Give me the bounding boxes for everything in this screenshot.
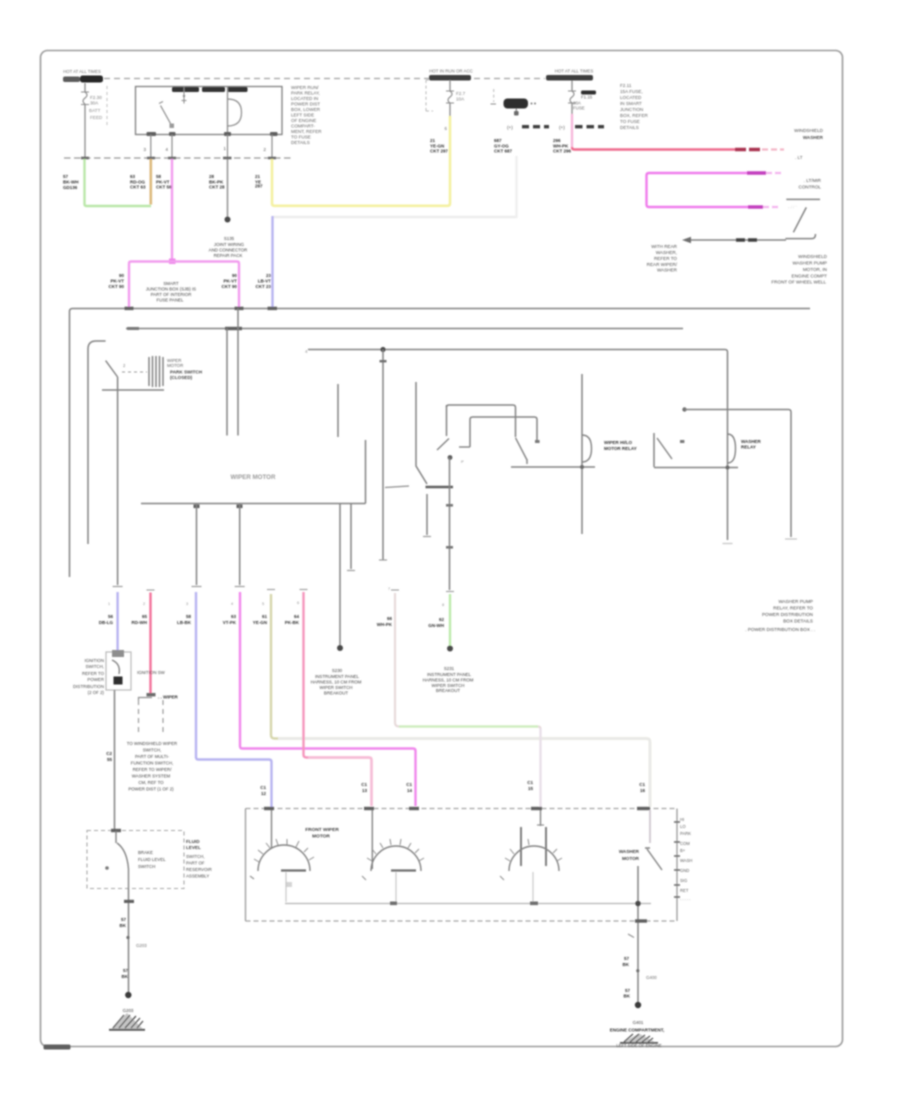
- text centered module label below splice: [146, 281, 196, 303]
- svg-text:G203: G203: [123, 1008, 134, 1013]
- svg-text:CKT 297: CKT 297: [430, 149, 449, 154]
- svg-text:CKT 90: CKT 90: [221, 284, 237, 289]
- svg-text:G203: G203: [136, 943, 147, 948]
- wire stub mid: [337, 384, 339, 437]
- entry tick: [111, 829, 121, 832]
- relay coil K1 inside box U1: [227, 87, 229, 135]
- svg-text:7: 7: [388, 587, 390, 591]
- svg-text:21: 21: [430, 138, 436, 143]
- svg-text:WIPER SWITCH: WIPER SWITCH: [320, 685, 353, 690]
- svg-text:WASHER: WASHER: [803, 135, 824, 140]
- internal bus: [285, 903, 651, 905]
- svg-text:BK-WH: BK-WH: [63, 180, 79, 185]
- svg-text:F1.15: F1.15: [581, 95, 593, 100]
- svg-text:CONTROL: CONTROL: [799, 185, 822, 190]
- svg-text:23: 23: [266, 273, 272, 278]
- svg-text:INSTRUMENT PANEL: INSTRUMENT PANEL: [315, 674, 360, 679]
- svg-text:S135: S135: [224, 236, 235, 241]
- wire green GRN: [85, 159, 152, 206]
- svg-text:PK-BK: PK-BK: [285, 620, 300, 625]
- svg-text:57: 57: [63, 174, 69, 179]
- svg-text:WASHER PUMP: WASHER PUMP: [778, 599, 813, 604]
- svg-text:LEFT SIDE OF ENGINE: LEFT SIDE OF ENGINE: [616, 1043, 662, 1048]
- wire yellow YEL long: [272, 116, 450, 206]
- switch inside box right: [649, 810, 651, 843]
- svg-text:PARK SWITCH: PARK SWITCH: [170, 370, 203, 375]
- svg-text:ASSEMBLY: ASSEMBLY: [186, 874, 209, 879]
- wire pink down from fuse F3: [571, 114, 573, 147]
- text block right of comp4: [620, 83, 649, 130]
- box U1 bold title: [172, 87, 199, 92]
- svg-text:15: 15: [528, 786, 534, 791]
- ground splice dot right: [635, 1002, 641, 1008]
- pin 2 stub inside box U1: [183, 87, 185, 99]
- connector ticks above colored drops: [147, 590, 455, 592]
- wiper motor internal: vertical with elbow: [416, 382, 427, 484]
- svg-text:SWITCH: SWITCH: [138, 864, 155, 869]
- bus2 dark tick left: [127, 327, 139, 330]
- svg-text:WASHER,: WASHER,: [656, 250, 677, 255]
- fuse F3 labels bold: [581, 91, 596, 95]
- bus C1 dark pin ticks: [81, 157, 89, 160]
- svg-text:SIG: SIG: [680, 878, 687, 883]
- ground chain right labels: [623, 956, 630, 967]
- svg-text:REAR WIPER/: REAR WIPER/: [647, 262, 678, 267]
- svg-text:COM: COM: [680, 841, 690, 846]
- svg-text:HARNESS, 10 CM FROM: HARNESS, 10 CM FROM: [423, 678, 474, 683]
- svg-text:(+): (+): [507, 125, 513, 130]
- svg-text:12: 12: [261, 791, 267, 796]
- wire magenta U top: [649, 172, 747, 174]
- stub into box: [115, 831, 117, 843]
- bus1 dark ticks at wire entries: [125, 307, 134, 310]
- svg-text:WINDSHIELD: WINDSHIELD: [798, 254, 828, 259]
- svg-text:PK-VT: PK-VT: [111, 279, 125, 284]
- svg-text:PARK: PARK: [680, 831, 691, 836]
- svg-text:56: 56: [108, 614, 114, 619]
- svg-text:PART OF MULTI-: PART OF MULTI-: [135, 754, 170, 759]
- wire magenta branch right: [172, 262, 239, 308]
- svg-text:C2: C2: [106, 751, 112, 756]
- svg-text:PART OF INTERIOR: PART OF INTERIOR: [151, 292, 192, 297]
- wire dashed fuse box boundary top: [104, 78, 545, 80]
- wire arrow bold label: [736, 238, 759, 241]
- inline connector tick on wire: [380, 360, 387, 362]
- svg-text:BK: BK: [120, 923, 127, 928]
- svg-text:WINDSHIELD: WINDSHIELD: [794, 128, 824, 133]
- wire magenta U left side: [647, 173, 650, 207]
- svg-text:LOCATED: LOCATED: [620, 95, 642, 100]
- stub below C3: [515, 109, 517, 116]
- svg-text:FUSE PANEL: FUSE PANEL: [156, 298, 184, 303]
- svg-text:FRONT OF WHEEL WELL: FRONT OF WHEEL WELL: [771, 280, 826, 285]
- pin label YEL circuit: [255, 174, 263, 189]
- power feed bar comp4: [546, 75, 593, 81]
- connector bus C1 dashed: [64, 157, 292, 159]
- svg-text:REFER TO: REFER TO: [654, 256, 677, 261]
- svg-text:POWER: POWER: [87, 677, 104, 682]
- right side text column outside box: [680, 817, 692, 901]
- svg-text:BRAKE: BRAKE: [138, 850, 153, 855]
- end tick: [379, 559, 387, 561]
- short bridge wire: [385, 486, 409, 488]
- svg-text:C1: C1: [406, 782, 412, 787]
- wire under connector: [102, 389, 164, 391]
- wire magenta U top tail: [766, 172, 784, 174]
- svg-text:LB-BK: LB-BK: [177, 620, 192, 625]
- wire end tick relay leg: [723, 543, 733, 545]
- svg-text:C1: C1: [639, 782, 645, 787]
- wire from feed to fuse F1: [84, 83, 86, 92]
- svg-text:MOTOR RELAY: MOTOR RELAY: [604, 446, 637, 451]
- svg-text:8: 8: [442, 603, 444, 607]
- end tick rail C: [113, 586, 123, 588]
- svg-text:S230: S230: [332, 668, 343, 673]
- pink lower horizontal paler: [308, 758, 372, 807]
- pin label BLK circuit: [209, 174, 225, 190]
- svg-text:FEED: FEED: [90, 115, 103, 120]
- svg-text:TO WINDSHIELD WIPER: TO WINDSHIELD WIPER: [127, 741, 177, 746]
- svg-text:1: 1: [223, 146, 226, 152]
- dark entry ticks on box top: [264, 807, 274, 810]
- svg-text:297: 297: [255, 184, 263, 189]
- splice dot green: [447, 646, 453, 652]
- svg-text:P: P: [461, 459, 464, 464]
- svg-text:IN SMART: IN SMART: [620, 101, 642, 106]
- pin label C3 circuit: [494, 138, 513, 154]
- svg-text:BK: BK: [624, 994, 631, 999]
- svg-text:GD136: GD136: [63, 185, 78, 190]
- svg-text:RELAY, REFER TO: RELAY, REFER TO: [773, 606, 813, 611]
- svg-text:. . .: . . .: [788, 204, 794, 209]
- pin labels above bottom box: [260, 780, 645, 796]
- svg-text:TO FUSE: TO FUSE: [620, 119, 640, 124]
- text block bottom-right: [771, 254, 827, 285]
- svg-text:BOX, LOWER: BOX, LOWER: [291, 107, 321, 112]
- svg-text:WASHER: WASHER: [657, 268, 678, 273]
- fuse F1 30A: [81, 92, 89, 105]
- svg-text:687: 687: [494, 138, 502, 143]
- relay switch symbol: [653, 433, 655, 467]
- splice dot left of pair: [337, 645, 343, 651]
- svg-text:21: 21: [255, 174, 261, 179]
- svg-text:IGNITION SW: IGNITION SW: [137, 670, 166, 675]
- wire violet drop long: [240, 592, 416, 806]
- svg-text:IGNITION: IGNITION: [84, 658, 104, 663]
- contact to bottom: [128, 869, 130, 889]
- svg-text:S231: S231: [444, 666, 455, 671]
- svg-text:GN-WH: GN-WH: [428, 623, 444, 628]
- tiny pin numbers above: [108, 587, 444, 607]
- svg-text:2: 2: [263, 147, 266, 153]
- svg-text:4: 4: [165, 147, 168, 153]
- svg-text:57: 57: [624, 956, 630, 961]
- pin label ORN circuit: [130, 174, 146, 190]
- text right of dashed box: [186, 839, 201, 850]
- svg-text:FUNCTION SWITCH,: FUNCTION SWITCH,: [131, 761, 173, 766]
- pin label comp4 circuit: [553, 138, 572, 154]
- wire pair stub A from bus2: [226, 329, 228, 436]
- svg-text:C1: C1: [527, 780, 533, 785]
- pin marks below connector line: [194, 505, 200, 509]
- svg-text:CKT 28: CKT 28: [209, 185, 225, 190]
- mech link dashed: [122, 371, 147, 373]
- cam contact bar right: [459, 446, 470, 448]
- fuse F2: [446, 91, 454, 103]
- svg-text:INSTRUMENT PANEL: INSTRUMENT PANEL: [427, 672, 472, 677]
- pin label magenta right: [221, 273, 237, 289]
- wire below elbow: [426, 494, 428, 535]
- wire gray from ignition down: [114, 690, 116, 830]
- svg-text:CM, REF TO: CM, REF TO: [138, 780, 164, 785]
- relay text right: [741, 439, 762, 450]
- svg-text:REPAIR PACK: REPAIR PACK: [214, 253, 243, 258]
- svg-text:WASH: WASH: [680, 858, 692, 863]
- svg-text:58: 58: [156, 174, 162, 179]
- svg-text:PARK RELAY,: PARK RELAY,: [291, 91, 320, 96]
- svg-text:DETAILS: DETAILS: [291, 140, 310, 145]
- Z symbol continuation: [785, 199, 820, 238]
- svg-text:16: 16: [640, 788, 646, 793]
- pin labels row y612-630: [99, 614, 445, 628]
- svg-text:GND: GND: [680, 868, 689, 873]
- wire bus3 with corner down to relay: [308, 350, 728, 541]
- svg-text:COMPART-: COMPART-: [291, 124, 315, 129]
- svg-text:CKT 90: CKT 90: [108, 284, 124, 289]
- staircase wire A: [447, 405, 516, 437]
- wire from switch arm down rail C: [117, 377, 119, 585]
- ground splice dot left: [125, 992, 131, 998]
- box U1 wiper relay module: [136, 87, 283, 135]
- svg-text:RD-WH: RD-WH: [132, 620, 148, 625]
- svg-text:FUSE: FUSE: [573, 106, 585, 111]
- wire magenta MG1: [171, 159, 173, 261]
- ignition switch component: [106, 652, 131, 690]
- svg-text:64: 64: [294, 614, 300, 619]
- svg-text:(2 OF 2): (2 OF 2): [88, 690, 105, 695]
- svg-text:JUNCTION BOX (SJB) IS: JUNCTION BOX (SJB) IS: [146, 287, 196, 292]
- svg-text:WIPER MOTOR: WIPER MOTOR: [231, 474, 276, 481]
- svg-text:BK: BK: [122, 974, 129, 979]
- curved switch arm: [117, 843, 129, 869]
- text block right of box U1: [291, 85, 322, 145]
- svg-text:58: 58: [186, 614, 192, 619]
- svg-text:2: 2: [143, 602, 145, 606]
- svg-text:6: 6: [297, 601, 299, 605]
- olive lower part pale: [278, 739, 650, 808]
- wire magenta U top bold label: [747, 171, 766, 174]
- svg-text:WIPER RUN/: WIPER RUN/: [291, 85, 319, 90]
- green horizontal overlay: [399, 725, 538, 727]
- relay capsule contact on vertical: [728, 434, 736, 463]
- svg-text:57: 57: [123, 968, 129, 973]
- svg-text:POWER DIST: POWER DIST: [291, 102, 320, 107]
- svg-text:B+: B+: [680, 848, 686, 853]
- wire switch common to ground: [637, 866, 639, 1005]
- svg-text:WASHER: WASHER: [741, 439, 762, 444]
- svg-text:CKT 23: CKT 23: [255, 284, 271, 289]
- svg-text:(+): (+): [559, 125, 565, 130]
- wire blue drop 1: [116, 592, 118, 650]
- svg-text:65: 65: [142, 614, 148, 619]
- splice dot S1: [225, 217, 231, 223]
- svg-text:RELAY: RELAY: [741, 445, 756, 450]
- text right of magenta top: [799, 178, 822, 190]
- svg-text:10A: 10A: [456, 97, 465, 102]
- label 2-line left: [106, 751, 112, 762]
- svg-text:ENGINE COMPT: ENGINE COMPT: [792, 274, 828, 279]
- wire pink drop: [304, 592, 372, 806]
- svg-text:FLUID: FLUID: [186, 839, 200, 844]
- svg-text:DB-LG: DB-LG: [99, 620, 114, 625]
- text pyramid steering column: [127, 741, 177, 792]
- wire blue LB1: [271, 216, 273, 307]
- motor M2: [371, 810, 373, 869]
- wire bus2: [126, 328, 683, 330]
- svg-text:LEFT SIDE: LEFT SIDE: [291, 113, 314, 118]
- svg-text:BREAKOUT: BREAKOUT: [436, 688, 460, 693]
- svg-text:ENGINE COMPARTMENT,: ENGINE COMPARTMENT,: [610, 1028, 664, 1033]
- pin stubs below box U1: [150, 135, 152, 159]
- wire pair from conn line to splice: [339, 504, 341, 647]
- motor M3 with brushes: [540, 810, 542, 826]
- svg-text:POWER DISTRIBUTION: POWER DISTRIBUTION: [762, 612, 813, 617]
- svg-text:SWITCH,: SWITCH,: [186, 854, 205, 859]
- component C3 ignition feed black bar: [493, 89, 495, 102]
- rose wire end connector: [147, 693, 156, 696]
- pin marks on box U1 bottom edge: [147, 132, 157, 136]
- svg-text:TO FUSE: TO FUSE: [291, 135, 311, 140]
- svg-text:BK: BK: [623, 962, 630, 967]
- svg-text:WASHER SYSTEM: WASHER SYSTEM: [132, 774, 171, 779]
- svg-text:55: 55: [107, 757, 113, 762]
- wire green drop to splice: [449, 594, 451, 647]
- svg-text:SWITCH,: SWITCH,: [85, 664, 104, 669]
- text inside dashed box: [138, 850, 166, 869]
- resistor bracket below rose: [139, 698, 153, 701]
- svg-text:. LT/MIR: . LT/MIR: [804, 178, 822, 183]
- svg-text:SMART: SMART: [163, 281, 179, 286]
- switch2 common bar: [511, 466, 595, 468]
- svg-text:BOX, REFER: BOX, REFER: [620, 113, 649, 118]
- motor M1: [271, 810, 273, 848]
- switch S1 inside box U1: [159, 102, 163, 104]
- svg-text:HOT AT ALL TIMES: HOT AT ALL TIMES: [63, 69, 101, 74]
- pin label magenta left: [108, 273, 124, 289]
- cam switch cluster: [437, 439, 449, 451]
- svg-text:WH-PK: WH-PK: [377, 622, 393, 627]
- svg-text:BREAKOUT: BREAKOUT: [324, 691, 348, 696]
- relay right: feed wire with dot: [682, 407, 686, 411]
- svg-text:90: 90: [232, 273, 238, 278]
- text right label heated seats: [794, 128, 824, 140]
- wire red horizontal to right: [572, 147, 735, 150]
- svg-text:MOTOR, IN: MOTOR, IN: [803, 267, 827, 272]
- coil contact on wire x582: [581, 374, 583, 534]
- svg-text:1: 1: [108, 602, 110, 606]
- svg-text:G400: G400: [646, 975, 657, 980]
- wire orange ORN: [150, 159, 153, 205]
- wire blue drop 2 long: [196, 592, 272, 807]
- wire rose drop: [149, 593, 151, 696]
- svg-text:HOT IN RUN OR ACC: HOT IN RUN OR ACC: [429, 69, 473, 74]
- svg-text:REFER TO WIPER/: REFER TO WIPER/: [133, 767, 173, 772]
- svg-text:HARNESS, 10 CM FROM: HARNESS, 10 CM FROM: [311, 680, 362, 685]
- svg-text:63: 63: [231, 614, 237, 619]
- fuse bracket dashed: [106, 86, 108, 125]
- svg-text:. . WIPER: . . WIPER: [158, 695, 179, 700]
- svg-text:AND CONNECTOR: AND CONNECTOR: [209, 248, 248, 253]
- svg-text:6: 6: [445, 126, 448, 131]
- svg-text:PK-VT: PK-VT: [224, 279, 238, 284]
- bottom box outline washer/wiper motors: [246, 808, 678, 810]
- svg-text:BATT: BATT: [89, 108, 101, 113]
- wire black to splice S1: [227, 159, 229, 218]
- switch arm left: [106, 361, 118, 377]
- svg-text:BOX DETAILS: BOX DETAILS: [783, 619, 813, 624]
- svg-text:F2.30: F2.30: [90, 95, 102, 100]
- svg-text:CKT 296: CKT 296: [553, 149, 572, 154]
- svg-text:C1: C1: [260, 785, 266, 790]
- fuse bracket dashed comp2: [426, 80, 433, 111]
- svg-text:MOTOR: MOTOR: [312, 834, 330, 840]
- svg-text:YE-GN: YE-GN: [253, 620, 267, 625]
- wire from conn line mid: [239, 504, 241, 586]
- svg-text:RESERVOIR: RESERVOIR: [186, 867, 212, 872]
- hook wire with switch left: [88, 341, 106, 544]
- svg-text:. . . . .: . . . . .: [680, 896, 690, 901]
- staircase wire B: [470, 417, 537, 447]
- switch2 arm: [516, 438, 528, 460]
- bus2 dark tick at pair crossing: [225, 327, 242, 330]
- svg-text:2: 2: [123, 363, 126, 368]
- svg-text:66: 66: [387, 616, 393, 621]
- svg-text:OF ENGINE: OF ENGINE: [291, 118, 316, 123]
- wire long from bus3 dot: [382, 350, 384, 561]
- wire from conn line left: [196, 504, 198, 586]
- pale lavender drop into box: [539, 728, 541, 808]
- dashed box washer switch: [87, 831, 184, 889]
- svg-text:63: 63: [130, 174, 136, 179]
- svg-text:F2.7: F2.7: [456, 91, 466, 96]
- svg-text:JUNCTION: JUNCTION: [620, 107, 643, 112]
- fuse F3: [568, 91, 576, 103]
- wire olive drop: [271, 594, 650, 807]
- PCM text block right: [745, 599, 815, 632]
- bold label washer pump motor: [305, 827, 339, 840]
- wire pale white horizontal: [273, 216, 517, 218]
- svg-text:MENT, REFER: MENT, REFER: [291, 129, 322, 134]
- page number label bottom-left: [44, 1045, 71, 1050]
- pin label GRN circuit: [63, 174, 79, 190]
- svg-text:WIPER HI/LO: WIPER HI/LO: [604, 440, 632, 445]
- power feed bar comp2: [429, 75, 471, 81]
- svg-text:LB-VT: LB-VT: [258, 279, 271, 284]
- wire arrow to washer pump: [690, 239, 786, 241]
- wire bus1 with left rail: [70, 309, 811, 578]
- svg-text:15A FUSE,: 15A FUSE,: [620, 89, 643, 94]
- svg-text:90: 90: [119, 273, 125, 278]
- svg-text:PART OF: PART OF: [186, 861, 205, 866]
- svg-text:REFER TO: REFER TO: [82, 671, 105, 676]
- wire pair short stub: [350, 504, 352, 570]
- svg-text:28: 28: [209, 174, 215, 179]
- svg-text:WASHER PUMP: WASHER PUMP: [792, 261, 827, 266]
- svg-text:MOTOR: MOTOR: [622, 856, 640, 861]
- wire pair stub B from bus1: [237, 309, 239, 436]
- svg-text:57: 57: [121, 917, 127, 922]
- wire comp2 feed to fuse: [449, 80, 451, 91]
